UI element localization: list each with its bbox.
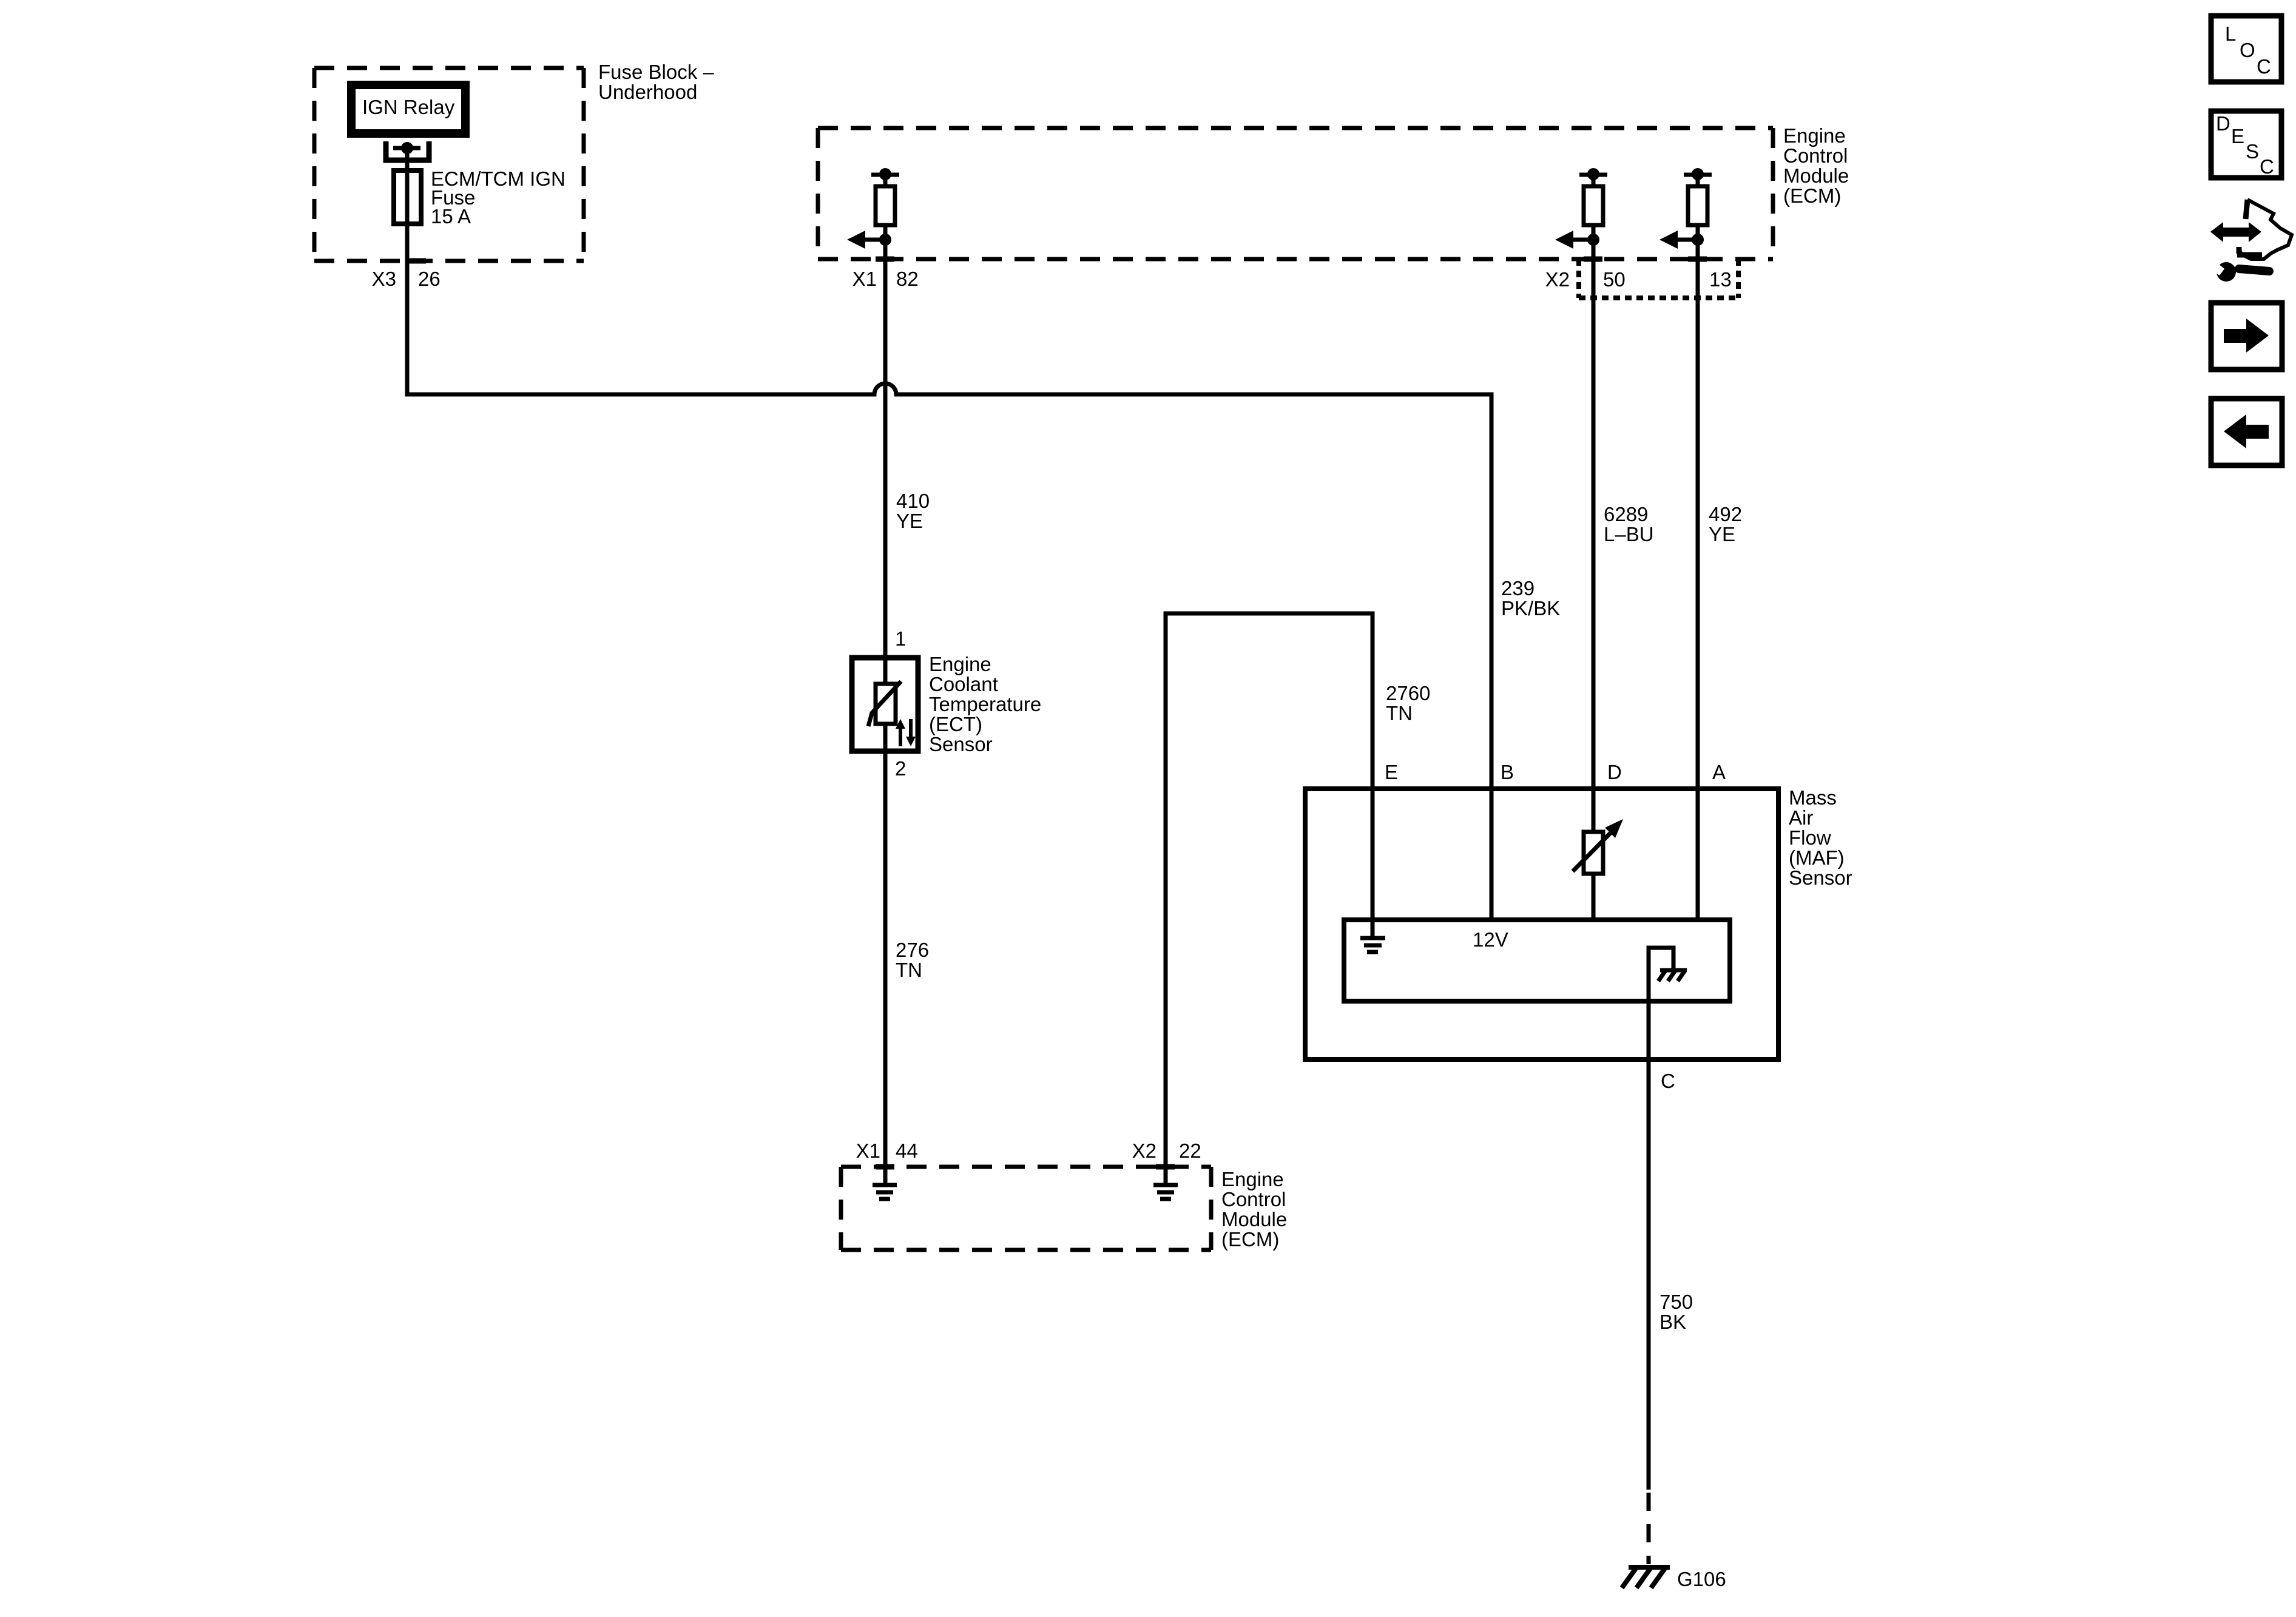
icon arrow left	[2211, 399, 2282, 465]
svg-text:Control: Control	[1783, 144, 1848, 167]
svg-text:YE: YE	[896, 510, 923, 532]
connector X2 sub-box (fine dashed)	[1579, 259, 1738, 298]
ECM label (bottom)	[1221, 1168, 1287, 1251]
svg-text:Temperature: Temperature	[929, 693, 1041, 715]
MAF inner box	[1344, 920, 1730, 1001]
pin tick X2-22	[1156, 1164, 1175, 1170]
label 492 YE	[1709, 503, 1742, 545]
svg-text:6289: 6289	[1604, 503, 1648, 525]
svg-text:82: 82	[896, 268, 919, 290]
svg-text:X3: X3	[372, 268, 396, 290]
ground at X2-22	[1153, 1185, 1178, 1199]
ECM label (top right)	[1783, 124, 1849, 207]
svg-text:Control: Control	[1221, 1188, 1286, 1210]
icon LOC	[2211, 16, 2281, 82]
svg-text:410: 410	[896, 490, 930, 512]
thermistor symbol	[868, 658, 901, 751]
fuse block - underhood dashed box	[314, 68, 584, 261]
svg-text:Mass: Mass	[1789, 786, 1837, 809]
svg-text:O: O	[2240, 39, 2255, 61]
svg-text:44: 44	[896, 1139, 918, 1162]
MAF sensor outer box	[1305, 789, 1778, 1059]
MAF signal ground (pin E)	[1360, 920, 1385, 952]
svg-text:Module: Module	[1221, 1208, 1287, 1230]
svg-text:C: C	[2260, 155, 2274, 178]
pin tick X2-50	[1584, 257, 1602, 262]
wire 492 YE	[1696, 225, 1700, 920]
svg-text:276: 276	[896, 939, 929, 961]
svg-text:X2: X2	[1132, 1139, 1156, 1162]
wire 6289 L-BU	[1592, 225, 1596, 832]
ECM internal resistor pin X1-82	[847, 168, 899, 249]
svg-text:X1: X1	[856, 1139, 880, 1162]
pin tick X3-26	[407, 258, 426, 264]
ECT bidirectional arrows	[896, 719, 916, 746]
svg-text:L: L	[2225, 22, 2236, 45]
svg-text:Fuse Block –: Fuse Block –	[598, 61, 714, 83]
svg-text:13: 13	[1709, 268, 1732, 291]
svg-text:Underhood: Underhood	[598, 81, 697, 103]
wire 276 TN	[883, 751, 888, 1183]
svg-text:YE: YE	[1709, 523, 1735, 545]
fuse label	[431, 167, 566, 228]
label 750 BK	[1660, 1291, 1693, 1333]
svg-text:Coolant: Coolant	[929, 673, 998, 695]
MAF pin labels E B D A	[1385, 761, 1726, 783]
ground G106	[1622, 1567, 1670, 1588]
label 2760 TN	[1386, 682, 1430, 724]
label 276 TN	[896, 939, 929, 981]
label X1 82	[853, 268, 919, 290]
svg-text:(MAF): (MAF)	[1789, 846, 1845, 869]
label X2 22	[1132, 1139, 1201, 1162]
ECT sensor label	[929, 653, 1041, 755]
svg-text:E: E	[2231, 125, 2244, 147]
svg-text:2760: 2760	[1386, 682, 1430, 704]
ECM internal resistor pin X2-50	[1555, 168, 1607, 249]
svg-text:2: 2	[895, 757, 906, 780]
svg-text:B: B	[1501, 761, 1514, 783]
svg-text:G106: G106	[1677, 1568, 1726, 1590]
svg-text:750: 750	[1660, 1291, 1693, 1313]
svg-text:D: D	[2216, 112, 2230, 135]
svg-text:Air: Air	[1789, 806, 1813, 829]
svg-text:239: 239	[1501, 577, 1535, 599]
svg-text:Sensor: Sensor	[1789, 866, 1852, 889]
svg-text:E: E	[1385, 761, 1398, 783]
relay contact terminal	[386, 141, 429, 160]
svg-text:BK: BK	[1660, 1311, 1686, 1333]
svg-text:22: 22	[1179, 1139, 1201, 1162]
ECT sensor box	[852, 658, 918, 751]
icon arrow right	[2211, 303, 2282, 370]
MAF chassis ground hook (pin C)	[1649, 948, 1687, 1001]
svg-text:X2: X2	[1545, 268, 1570, 291]
label 410 YE	[896, 490, 930, 532]
label 239 PK/BK	[1501, 577, 1560, 619]
svg-text:492: 492	[1709, 503, 1742, 525]
svg-text:(ECM): (ECM)	[1221, 1228, 1279, 1251]
svg-text:S: S	[2246, 140, 2259, 163]
svg-text:TN: TN	[1386, 702, 1413, 724]
svg-text:26: 26	[418, 268, 441, 290]
label X1 44	[856, 1139, 918, 1162]
wire 410 YE	[883, 225, 888, 658]
pin tick X2-13	[1688, 257, 1707, 262]
svg-text:Sensor: Sensor	[929, 733, 993, 755]
svg-text:IGN Relay: IGN Relay	[362, 96, 455, 118]
svg-text:Engine: Engine	[1783, 124, 1846, 147]
ECM dashed box (top)	[818, 128, 1773, 259]
wire 2760 TN	[1166, 613, 1373, 1183]
icon DESC	[2211, 111, 2281, 178]
icon diagnostic tool	[2209, 200, 2292, 282]
MAF variable resistor (D)	[1573, 819, 1623, 874]
svg-text:X1: X1	[853, 268, 877, 290]
svg-text:Engine: Engine	[1221, 1168, 1284, 1190]
svg-text:50: 50	[1603, 268, 1626, 291]
svg-text:TN: TN	[896, 959, 922, 981]
svg-text:12V: 12V	[1473, 928, 1508, 951]
svg-text:PK/BK: PK/BK	[1501, 597, 1560, 619]
svg-text:Module: Module	[1783, 164, 1849, 187]
svg-text:(ECM): (ECM)	[1783, 184, 1841, 207]
ECM dashed box (bottom)	[841, 1167, 1211, 1250]
label 6289 L-BU	[1604, 503, 1654, 545]
svg-text:D: D	[1607, 761, 1622, 783]
svg-text:C: C	[1661, 1070, 1675, 1092]
svg-text:L–BU: L–BU	[1604, 523, 1654, 545]
svg-text:(ECT): (ECT)	[929, 713, 982, 735]
svg-text:Flow: Flow	[1789, 826, 1831, 849]
ECM internal resistor pin X2-13	[1660, 168, 1712, 249]
wire from relay to fuse	[405, 152, 410, 173]
pin tick X1-82	[876, 257, 894, 262]
MAF label	[1789, 786, 1852, 889]
fuse ECM/TCM IGN 15 A	[405, 170, 410, 261]
connector X3 pin 26 label	[372, 268, 441, 290]
IGN Relay	[351, 85, 465, 133]
svg-text:Engine: Engine	[929, 653, 991, 675]
ground at X1-44	[873, 1185, 897, 1199]
svg-text:15 A: 15 A	[431, 205, 471, 228]
svg-text:A: A	[1712, 761, 1726, 783]
fuse block label	[598, 61, 714, 103]
svg-text:C: C	[2257, 55, 2271, 78]
wire 750 BK	[1647, 1001, 1651, 1490]
svg-text:1: 1	[895, 627, 906, 650]
wire 239 PK/BK from fuse to MAF pin B (hops over 410 YE)	[407, 261, 1491, 920]
pin tick X1-44	[876, 1164, 894, 1170]
